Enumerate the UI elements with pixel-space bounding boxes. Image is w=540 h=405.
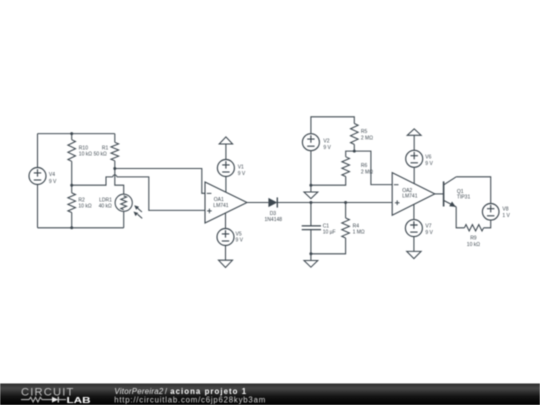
svg-text:9 V: 9 V: [425, 161, 433, 167]
resistor R6: [346, 151, 355, 157]
svg-text:R2: R2: [78, 197, 85, 203]
voltage source V1: [217, 160, 234, 177]
negative supply arrow below V7: [407, 251, 421, 258]
svg-text:V2: V2: [323, 138, 329, 144]
wire: V6 to supply arrow: [413, 135, 415, 150]
resistor R4: [345, 203, 347, 219]
wire: Q1 collector to V8: [456, 177, 491, 204]
op-amp OA2: [392, 173, 435, 216]
svg-text:9 V: 9 V: [323, 145, 331, 151]
voltage source V2: [302, 134, 319, 151]
svg-text:http://circuitlab.com/c6jp628k: http://circuitlab.com/c6jp628kyb3am: [114, 396, 265, 405]
svg-text:LM741: LM741: [402, 193, 418, 199]
svg-text:TIP31: TIP31: [457, 195, 471, 201]
wire: OA1 output to D3: [247, 202, 268, 204]
power arrow above V1: [219, 137, 232, 144]
voltage source V8: [482, 204, 499, 221]
svg-text:R10: R10: [79, 145, 88, 151]
voltage source V7: [405, 220, 422, 237]
wire: OA2 V- pin: [413, 204, 415, 220]
svg-text:R5: R5: [361, 129, 368, 135]
node: R5/R6 junction: [353, 150, 356, 153]
voltage source V6: [406, 150, 423, 167]
voltage source V4: [37, 134, 39, 228]
svg-text:C1: C1: [323, 224, 330, 230]
wire: top-left rail: [38, 133, 115, 135]
svg-text:LAB: LAB: [67, 396, 91, 405]
photoresistor LDR1: [115, 194, 132, 211]
svg-text:9 V: 9 V: [49, 179, 57, 185]
voltage source V5: [217, 229, 234, 246]
node: C1/R4 bottom: [309, 252, 312, 255]
node: V4/R10 top: [70, 132, 73, 135]
op-amp OA1: [205, 182, 247, 223]
svg-text:9 V: 9 V: [236, 238, 244, 244]
node: R1 bottom: [113, 167, 116, 170]
node: R2 bottom rail: [70, 226, 73, 229]
svg-text:LM741: LM741: [213, 203, 229, 209]
ground under V2: [310, 185, 312, 192]
svg-text:R6: R6: [361, 163, 368, 169]
svg-text:10 kΩ: 10 kΩ: [79, 152, 92, 158]
capacitor C1: [310, 203, 312, 226]
resistor R2: [71, 185, 73, 193]
LDR1 light arrow 1: [137, 208, 142, 212]
svg-text:9 V: 9 V: [425, 230, 433, 236]
wire: V7 to negative arrow: [413, 236, 415, 251]
wire: V2 bottom: [310, 150, 312, 185]
logo diode: [52, 397, 58, 403]
svg-text:50 kΩ: 50 kΩ: [94, 152, 107, 158]
wire: OA2 output to Q1 base: [435, 193, 444, 195]
wire: OA2 V+ pin: [413, 167, 415, 184]
svg-text:10 kΩ: 10 kΩ: [78, 204, 91, 210]
svg-text:V7: V7: [425, 224, 431, 230]
wire: V1 to supply arrow: [225, 144, 227, 160]
wire: OA1 V- pin: [225, 213, 227, 229]
node: C1 top on main wire: [309, 201, 312, 204]
svg-text:LDR1: LDR1: [99, 197, 112, 203]
svg-text:1 V: 1 V: [502, 213, 510, 219]
footer bar: [0, 384, 540, 405]
wire: V5 to negative arrow: [225, 245, 227, 260]
svg-text:V4: V4: [49, 172, 55, 178]
wire: bottom-left rail: [38, 227, 124, 229]
svg-text:1 MΩ: 1 MΩ: [353, 230, 365, 236]
resistor R10: [71, 134, 73, 140]
wire: R5/R6 node to OA2 - input: [354, 151, 392, 185]
svg-text:V6: V6: [425, 154, 431, 160]
wire: divider node to OA1 + input (with hop): [72, 177, 113, 185]
resistor R9: [464, 225, 483, 231]
svg-text:R4: R4: [353, 224, 360, 230]
ground below C1: [310, 254, 312, 261]
svg-text:V8: V8: [502, 206, 508, 212]
svg-text:R9: R9: [470, 236, 477, 242]
power arrow above V6: [407, 129, 421, 135]
resistor R1: [114, 134, 116, 143]
wire: V2 top to R5 top: [311, 117, 354, 134]
node: V2 minus / R6: [309, 184, 312, 187]
negative supply arrow below V5: [219, 260, 233, 267]
svg-text:10 kΩ: 10 kΩ: [467, 242, 480, 248]
wire: D3 to OA2 + input: [277, 202, 392, 204]
svg-text:10 µF: 10 µF: [323, 230, 336, 236]
svg-text:40 kΩ: 40 kΩ: [99, 204, 112, 210]
node: R4 top on main wire: [344, 201, 347, 204]
svg-text:1N4148: 1N4148: [265, 217, 283, 223]
wire: Q1 emitter down to R9: [456, 207, 464, 228]
LDR1 light arrow 2: [138, 214, 143, 218]
wire: OA1 V+ pin: [225, 176, 227, 192]
svg-text:V1: V1: [238, 164, 244, 170]
resistor R5: [351, 124, 359, 145]
diode D3: [268, 198, 277, 207]
svg-text:V5: V5: [236, 231, 242, 237]
svg-text:R1: R1: [102, 145, 109, 151]
wire: R1 bottom to LDR1 top: [115, 169, 124, 195]
svg-text:2 MΩ: 2 MΩ: [361, 135, 373, 141]
logo resistor squiggle: [21, 397, 52, 402]
wire: R1 node to OA1 - input: [115, 169, 205, 194]
svg-text:9 V: 9 V: [238, 171, 246, 177]
transistor Q1: [443, 181, 445, 206]
node: R10/R2 divider: [70, 184, 73, 187]
